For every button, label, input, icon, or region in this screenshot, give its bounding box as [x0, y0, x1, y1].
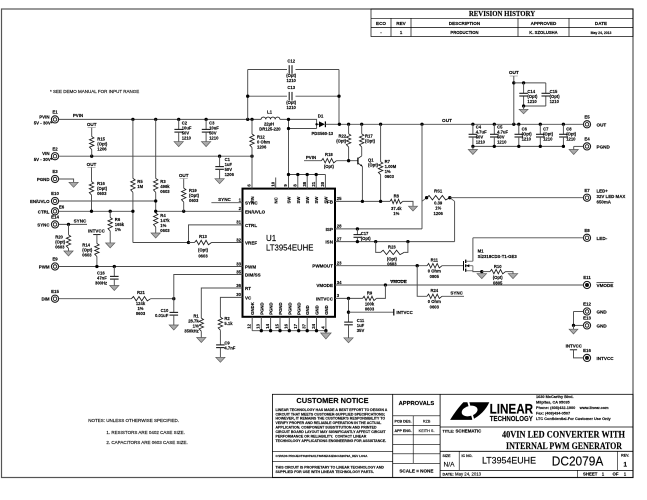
svg-text:PGND: PGND: [259, 302, 264, 314]
svg-text:OUT: OUT: [509, 70, 519, 75]
resistor R18: [321, 159, 336, 163]
svg-text:28: 28: [337, 224, 342, 229]
svg-text:32: 32: [236, 237, 241, 242]
svg-text:0 Ohm: 0 Ohm: [428, 299, 441, 304]
capacitor C8: [562, 124, 564, 134]
svg-text:(Opt): (Opt): [336, 139, 347, 144]
svg-text:0603: 0603: [55, 244, 65, 249]
svg-text:DC2079A: DC2079A: [552, 454, 604, 469]
capacitor C2: [178, 119, 180, 129]
svg-text:SYNC: SYNC: [74, 219, 87, 224]
svg-text:1210: 1210: [182, 136, 192, 141]
resistor R4: [154, 213, 158, 227]
svg-text:37: 37: [302, 323, 307, 328]
svg-text:PWMOUT: PWMOUT: [312, 264, 333, 269]
resistor R7: [380, 124, 382, 161]
svg-text:10: 10: [270, 181, 275, 186]
resistor R1: [199, 318, 203, 331]
svg-text:OUT: OUT: [87, 162, 97, 167]
svg-text:100k: 100k: [365, 301, 375, 306]
resistor R10: [490, 269, 506, 273]
ground at R1: [197, 338, 206, 343]
svg-text:R13: R13: [199, 234, 207, 239]
resistor R3: [155, 119, 157, 178]
svg-text:13: 13: [256, 323, 261, 328]
svg-text:0603: 0603: [198, 254, 208, 259]
svg-text:PVIN: PVIN: [306, 155, 316, 160]
svg-text:350kHz: 350kHz: [184, 329, 198, 334]
resistor R14: [96, 235, 98, 244]
ground at E4: [569, 150, 578, 155]
svg-text:LT3954EUHE: LT3954EUHE: [482, 455, 536, 465]
wire RT to R1: [201, 288, 242, 318]
wire INTVCC pin3 row: [335, 297, 363, 299]
svg-text:1210: 1210: [566, 136, 576, 141]
wire E3 to ground: [59, 179, 74, 182]
svg-text:4.7nF: 4.7nF: [224, 345, 235, 350]
svg-text:Fax: (408)434-0507: Fax: (408)434-0507: [536, 411, 570, 415]
svg-text:HOWEVER, IT REMAINS THE CUSTOM: HOWEVER, IT REMAINS THE CUSTOMER'S RESPO…: [276, 417, 386, 421]
wire SW node jog: [280, 119, 319, 124]
svg-text:GND: GND: [315, 305, 320, 315]
svg-text:5.1k: 5.1k: [224, 321, 233, 326]
terminal E4 PGND: [583, 143, 590, 150]
terminal E16 INTVCC: [583, 354, 590, 361]
svg-text:E9: E9: [52, 257, 58, 262]
title block customer notice: [272, 394, 633, 477]
svg-text:GND: GND: [324, 305, 329, 315]
svg-text:PCB DES.: PCB DES.: [395, 419, 412, 423]
wire CTRL row: [59, 210, 133, 212]
svg-text:PERFORMANCE OR RELIABILITY. C: PERFORMANCE OR RELIABILITY. CONTACT LINE…: [276, 435, 367, 439]
svg-text:May 24, 2013: May 24, 2013: [591, 31, 612, 35]
resistor R21: [131, 297, 150, 301]
capacitor C7: [539, 124, 541, 134]
svg-text:R8: R8: [394, 193, 400, 198]
svg-text:ISP: ISP: [326, 227, 333, 232]
logo Linear Technology: [450, 402, 489, 421]
svg-text:INTVCC: INTVCC: [566, 344, 583, 349]
wire SYNC stub at E14: [59, 223, 87, 225]
svg-text:APPROVALS: APPROVALS: [399, 401, 435, 407]
svg-text:0603: 0603: [385, 174, 395, 179]
svg-text:IC NO.: IC NO.: [462, 454, 473, 458]
ground at cap bus: [468, 150, 477, 155]
svg-text:1210: 1210: [476, 139, 486, 144]
ground at C9: [216, 357, 225, 362]
svg-text:CIRCUIT BOARD LAYOUT MAY SIGNI: CIRCUIT BOARD LAYOUT MAY SIGNIFICANTLY A…: [276, 430, 387, 434]
wire SYNC stub pin 1: [211, 202, 242, 204]
svg-text:TITLE:: TITLE:: [443, 429, 455, 433]
svg-text:VREF: VREF: [245, 241, 257, 246]
svg-text:TECHNOLOGY APPLICATIONS ENGINE: TECHNOLOGY APPLICATIONS ENGINEERING FOR …: [276, 439, 387, 443]
svg-text:OUT: OUT: [179, 173, 189, 178]
svg-text:300Hz: 300Hz: [95, 280, 107, 285]
ground at M1 source: [477, 274, 487, 279]
svg-text:CTRL: CTRL: [38, 209, 50, 214]
resistor R2: [218, 317, 222, 330]
svg-text:GND: GND: [597, 310, 608, 315]
wire output cap ground bus: [473, 145, 564, 147]
wire PWM row: [59, 266, 243, 268]
ground at C10: [169, 325, 178, 330]
svg-text:DIM/SS: DIM/SS: [245, 273, 261, 278]
capacitor C1: [219, 156, 221, 166]
resistor R6: [109, 211, 111, 217]
svg-text:1210: 1210: [287, 78, 297, 83]
svg-text:2. CAPACITORS ARE 0603 CASE SI: 2. CAPACITORS ARE 0603 CASE SIZE.: [106, 440, 187, 445]
svg-text:TECHNOLOGY: TECHNOLOGY: [490, 416, 533, 423]
terminal E7 LED+: [583, 194, 590, 201]
svg-text:E15: E15: [51, 289, 59, 294]
svg-text:5V - 30V*: 5V - 30V*: [34, 120, 53, 125]
svg-text:20: 20: [320, 181, 325, 186]
terminal E13 GND: [583, 322, 590, 329]
transistor Q1: [357, 158, 359, 165]
ground at R10: [508, 274, 518, 279]
svg-text:SHEET: SHEET: [583, 472, 598, 477]
terminal E2 VIN: [51, 153, 58, 160]
svg-text:May 24, 2013: May 24, 2013: [455, 472, 482, 477]
resistor R5: [132, 119, 134, 178]
wire OUT rail: [339, 123, 583, 125]
svg-text:C13: C13: [287, 85, 295, 90]
svg-text:1M: 1M: [137, 184, 143, 189]
svg-text:L1: L1: [267, 110, 273, 115]
svg-text:VC: VC: [245, 295, 252, 300]
terminal E5 OUT: [583, 121, 590, 128]
ground at C3: [201, 142, 210, 147]
svg-text:INTERNAL PWM GENERATOR: INTERNAL PWM GENERATOR: [506, 441, 623, 452]
svg-text:0603: 0603: [136, 311, 146, 316]
svg-text:31: 31: [236, 220, 241, 225]
svg-text:36: 36: [236, 283, 241, 288]
svg-text:E16: E16: [583, 348, 591, 353]
svg-text:E6: E6: [59, 204, 65, 209]
svg-text:34: 34: [337, 280, 342, 285]
svg-text:27: 27: [337, 236, 342, 241]
svg-text:33: 33: [236, 261, 241, 266]
svg-text:INTVCC: INTVCC: [88, 228, 106, 233]
svg-text:0 Ohm: 0 Ohm: [428, 269, 441, 274]
ground at E3: [69, 182, 78, 187]
svg-text:VIN: VIN: [42, 151, 49, 156]
svg-text:R11: R11: [431, 257, 439, 262]
svg-text:(Opt): (Opt): [324, 164, 335, 169]
svg-text:SIZE: SIZE: [443, 454, 452, 458]
ground at E12 E13: [569, 329, 578, 334]
svg-text:THIS CIRCUIT IS PROPRIETARY TO: THIS CIRCUIT IS PROPRIETARY TO LINEAR TE…: [276, 465, 385, 469]
svg-text:PWM: PWM: [39, 265, 50, 270]
revision history table: [371, 9, 633, 37]
ground at IC bus: [321, 333, 332, 339]
svg-text:0.01uF: 0.01uF: [155, 313, 169, 318]
svg-text:M1: M1: [478, 249, 485, 254]
terminal E3 PGND: [51, 175, 58, 182]
resistor RS1 current sense: [422, 198, 427, 202]
capacitor C10: [173, 299, 175, 313]
svg-text:35V: 35V: [357, 328, 365, 333]
resistor R22: [348, 124, 350, 134]
svg-text:REV.: REV.: [621, 453, 629, 457]
svg-text:C12: C12: [287, 59, 295, 64]
svg-text:1206: 1206: [257, 144, 267, 149]
svg-text:38: 38: [302, 181, 307, 186]
svg-text:APPROVED: APPROVED: [531, 21, 557, 26]
resistor R17: [361, 124, 363, 134]
terminal E14 SYNC: [51, 221, 58, 228]
svg-text:D1: D1: [318, 114, 324, 119]
svg-text:1210: 1210: [522, 136, 532, 141]
svg-text:PGND: PGND: [297, 302, 302, 314]
svg-text:R21: R21: [137, 290, 145, 295]
svg-text:* SEE DEMO MANUAL FOR INPUT RA: * SEE DEMO MANUAL FOR INPUT RANGE: [50, 89, 139, 94]
svg-text:Si2318CDS-T1-GE3: Si2318CDS-T1-GE3: [478, 254, 518, 259]
svg-text:OUT: OUT: [442, 118, 452, 123]
svg-text:INTVCC: INTVCC: [597, 356, 615, 361]
svg-text:NC: NC: [274, 197, 279, 203]
svg-text:PRODUCTION: PRODUCTION: [450, 30, 478, 35]
svg-text:PDS560-13: PDS560-13: [311, 131, 333, 136]
svg-text:0603: 0603: [160, 228, 170, 233]
svg-text:APP ENG.: APP ENG.: [395, 429, 412, 433]
capacitor C13: [288, 92, 290, 101]
resistor R11: [427, 264, 442, 268]
svg-text:REV: REV: [396, 21, 406, 26]
svg-text:1206: 1206: [434, 211, 444, 216]
wire SW bus: [289, 174, 326, 176]
svg-text:SCHEMATIC: SCHEMATIC: [456, 429, 483, 434]
resistor R24: [417, 266, 427, 297]
svg-text:1%: 1%: [435, 206, 441, 211]
svg-text:PWM: PWM: [245, 265, 256, 270]
wire EN/UVLO to pin 2: [156, 210, 243, 212]
wire C14 C15 loop: [514, 82, 546, 84]
wire IC ground bus: [251, 317, 253, 331]
wire VMODE row: [335, 284, 583, 286]
svg-text:DESCRIPTION: DESCRIPTION: [449, 21, 481, 26]
svg-text:17: 17: [293, 323, 298, 328]
svg-text:E1: E1: [52, 110, 58, 115]
svg-text:35: 35: [236, 269, 241, 274]
svg-text:1206: 1206: [97, 146, 107, 151]
terminal E10 EN/UVLO: [51, 197, 58, 204]
pin 10 NC stub: [275, 178, 277, 189]
svg-text:LED+: LED+: [597, 189, 609, 194]
svg-text:K. SZOLUSHA: K. SZOLUSHA: [529, 30, 557, 35]
svg-text:DIM: DIM: [41, 297, 49, 302]
svg-text:24: 24: [311, 323, 316, 328]
wire DIM row: [59, 298, 132, 300]
ground at C2: [174, 142, 183, 147]
svg-text:CTRL: CTRL: [245, 223, 257, 228]
svg-text:CIRCUIT THAT MEETS CUSTOMER-SU: CIRCUIT THAT MEETS CUSTOMER-SUPPLIED SPE…: [276, 412, 386, 416]
svg-text:5V - 30V*: 5V - 30V*: [34, 157, 53, 162]
svg-text:R18: R18: [325, 152, 333, 157]
svg-text:30: 30: [236, 292, 241, 297]
svg-text:DATE:: DATE:: [443, 473, 454, 477]
svg-text:0603: 0603: [189, 198, 199, 203]
svg-text:VMODE: VMODE: [390, 279, 407, 284]
resistor R20: [68, 224, 70, 234]
svg-text:32V LED MAX: 32V LED MAX: [597, 194, 626, 199]
resistor R9: [363, 296, 377, 300]
svg-text:0603: 0603: [365, 307, 375, 312]
svg-text:1210: 1210: [497, 139, 507, 144]
ground at R4: [151, 233, 160, 238]
svg-text:1206: 1206: [225, 172, 235, 177]
capacitor C12: [288, 65, 290, 74]
svg-text:SYNC: SYNC: [37, 222, 50, 227]
svg-text:N/A: N/A: [444, 461, 456, 468]
transistor M1 mosfet: [463, 261, 465, 271]
svg-text:DR125-220: DR125-220: [259, 127, 281, 132]
svg-text:16: 16: [284, 323, 289, 328]
svg-text:U1: U1: [266, 234, 277, 243]
svg-text:EN/UVLO: EN/UVLO: [30, 199, 50, 204]
svg-text:OUT: OUT: [87, 122, 97, 127]
diode D1: [319, 121, 325, 127]
svg-text:R9: R9: [367, 290, 373, 295]
svg-text:SUPPLIED FOR USE WITH LINEAR T: SUPPLIED FOR USE WITH LINEAR TECHNOLOGY …: [276, 470, 374, 474]
svg-text:25: 25: [337, 196, 342, 201]
svg-text:PVIN: PVIN: [73, 113, 83, 118]
svg-text:1210: 1210: [287, 105, 297, 110]
svg-text:ISN: ISN: [325, 240, 333, 245]
capacitor C9: [216, 344, 225, 346]
svg-text:C:\PADS PROJECTS\2079A\LT3954E: C:\PADS PROJECTS\2079A\LT3954EUHE\SCH\20…: [276, 454, 369, 458]
svg-text:12: 12: [247, 323, 252, 328]
svg-text:1%: 1%: [115, 227, 121, 232]
terminal E11 VMODE: [583, 281, 590, 288]
svg-text:E5: E5: [584, 115, 590, 120]
svg-text:1630 McCarthy Blvd.: 1630 McCarthy Blvd.: [536, 395, 574, 399]
wire OUT to ISP: [421, 124, 423, 229]
svg-text:0603: 0603: [430, 305, 440, 310]
svg-text:(Opt): (Opt): [368, 162, 379, 167]
svg-text:1: 1: [623, 462, 627, 469]
wire ISP row: [335, 228, 422, 230]
ground at C1: [215, 179, 224, 184]
svg-text:SW: SW: [296, 196, 301, 204]
svg-text:VMODE: VMODE: [597, 283, 614, 288]
svg-text:LT3954EUHE: LT3954EUHE: [266, 243, 314, 252]
wire LED- row to E8: [473, 237, 584, 239]
wire E12 E13 gnd: [574, 311, 584, 313]
resistor R12: [250, 134, 254, 148]
svg-text:E13: E13: [583, 316, 591, 321]
svg-text:R10: R10: [494, 264, 502, 269]
svg-text:RT: RT: [245, 286, 251, 291]
wire ISN row: [335, 241, 455, 243]
svg-text:E10: E10: [51, 191, 59, 196]
capacitor C3: [205, 119, 207, 129]
svg-text:E12: E12: [583, 302, 591, 307]
capacitor C6: [518, 124, 520, 134]
capacitor C11: [344, 321, 353, 323]
svg-text:CUSTOMER NOTICE: CUSTOMER NOTICE: [296, 396, 368, 405]
svg-text:OUT: OUT: [597, 122, 607, 127]
wire INTVCC tap: [348, 298, 350, 322]
wire EN/UVLO row: [59, 200, 156, 202]
wire M1 source node: [473, 270, 482, 273]
terminal E1 PVIN: [51, 116, 58, 123]
svg-text:INTVCC: INTVCC: [396, 310, 413, 315]
svg-text:DATE: DATE: [595, 21, 607, 26]
svg-text:KEITH S.: KEITH S.: [419, 429, 435, 433]
svg-text:40VIN LED CONVERTER WITH: 40VIN LED CONVERTER WITH: [502, 430, 625, 441]
wire PWMOUT row: [335, 265, 427, 267]
svg-text:ECO: ECO: [376, 21, 386, 26]
svg-text:E2: E2: [52, 146, 58, 151]
svg-text:E7: E7: [584, 188, 590, 193]
terminal E8 LED-: [583, 234, 590, 241]
svg-text:R24: R24: [430, 288, 438, 293]
svg-text:VIN: VIN: [250, 196, 255, 203]
wire E4 stub: [574, 145, 584, 147]
ground at C14 C15: [519, 109, 528, 114]
svg-text:E3: E3: [52, 169, 58, 174]
svg-text:PGND: PGND: [278, 302, 283, 314]
ground at C11: [344, 338, 353, 343]
capacitor C16: [113, 267, 115, 277]
wire CTRL to pin 31: [133, 242, 189, 244]
wire C13 row: [248, 95, 287, 97]
terminal E9 PWM: [51, 263, 58, 270]
svg-text:LTC Confidential-For Customer: LTC Confidential-For Customer Use Only: [536, 417, 612, 421]
svg-text:1210: 1210: [543, 136, 553, 141]
svg-text:NOTES: UNLESS OTHERWISE SPECIF: NOTES: UNLESS OTHERWISE SPECIFIED.: [88, 418, 179, 423]
svg-text:E8: E8: [584, 228, 590, 233]
svg-text:GNDK: GNDK: [250, 301, 255, 315]
terminal E15 DIM: [51, 295, 58, 302]
svg-text:GND: GND: [597, 323, 608, 328]
svg-text:LINEAR: LINEAR: [490, 400, 533, 416]
svg-text:SW: SW: [305, 196, 310, 204]
svg-text:REVISION HISTORY: REVISION HISTORY: [469, 11, 535, 18]
resistor R23: [376, 242, 381, 253]
capacitor C15: [542, 92, 551, 94]
svg-text:(Opt): (Opt): [493, 275, 504, 280]
svg-text:SYNC: SYNC: [450, 290, 463, 295]
svg-text:OF: OF: [613, 472, 619, 477]
svg-text:SW: SW: [314, 196, 319, 204]
capacitor C4: [472, 124, 474, 134]
svg-text:E11: E11: [583, 275, 591, 280]
terminal E12 GND: [583, 308, 590, 315]
svg-text:650mA: 650mA: [597, 200, 612, 205]
svg-text:APPLICATION. COMPONENT SUBSTIT: APPLICATION. COMPONENT SUBSTITUTION AND …: [276, 426, 378, 430]
svg-text:14: 14: [265, 323, 270, 328]
svg-text:SYNC: SYNC: [218, 197, 231, 202]
svg-text:0805: 0805: [430, 274, 440, 279]
svg-text:VMODE: VMODE: [316, 283, 333, 288]
wire VC to R2: [220, 297, 242, 317]
svg-text:EN/UVLO: EN/UVLO: [245, 209, 266, 214]
svg-text:RZB: RZB: [423, 420, 431, 424]
svg-text:LINEAR TECHNOLOGY HAS MADE A B: LINEAR TECHNOLOGY HAS MADE A BEST EFFORT…: [276, 408, 388, 412]
svg-text:PVIN: PVIN: [39, 114, 49, 119]
svg-text:Phone: (408)432-1900 www.li: Phone: (408)432-1900 www.linear.com: [536, 406, 609, 410]
svg-text:INTVCC: INTVCC: [316, 296, 334, 301]
resistor R8: [390, 199, 403, 203]
wire DIM to pin 35: [174, 275, 243, 299]
svg-text:(Opt): (Opt): [387, 256, 398, 261]
svg-text:23: 23: [337, 261, 342, 266]
wire C12 loop: [247, 70, 249, 120]
svg-text:PGND: PGND: [37, 177, 50, 182]
svg-text:1210: 1210: [550, 99, 560, 104]
